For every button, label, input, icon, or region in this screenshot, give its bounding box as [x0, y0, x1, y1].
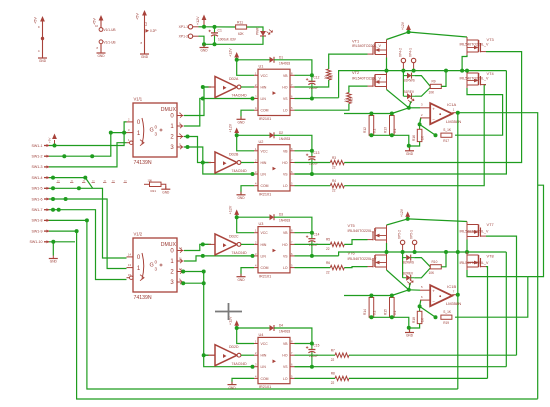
- svg-text:DMUX: DMUX: [161, 107, 177, 113]
- svg-text:C1: C1: [218, 29, 222, 33]
- wire IC1A output to far right riser: [458, 113, 538, 399]
- power symbol +5V pillar P2 (V1/1 supply pins): [100, 17, 102, 22]
- node XP1 +12V junction: [202, 25, 206, 29]
- wire VT6 drain to output row 2: [386, 251, 388, 253]
- svg-text:SW1-9: SW1-9: [32, 229, 43, 233]
- origin crosshair mark: [215, 303, 242, 320]
- LED PWR: [260, 31, 266, 36]
- ground GND of U4: [228, 384, 237, 386]
- svg-text:GND: GND: [406, 334, 414, 338]
- resistor R13 0.1: [390, 116, 395, 136]
- svg-text:COM: COM: [261, 109, 269, 113]
- svg-text:XP5-2: XP5-2: [398, 230, 402, 239]
- power symbol +12V of U2: [236, 130, 238, 135]
- node XP5-2 junction: [401, 250, 405, 254]
- node C1 top junction: [213, 25, 217, 29]
- svg-text:VT4: VT4: [487, 71, 495, 76]
- svg-text:R6: R6: [326, 261, 330, 265]
- svg-text:XP1-1: XP1-1: [179, 25, 189, 29]
- wire HO of U4 to R7: [295, 354, 336, 356]
- svg-text:VT5: VT5: [348, 223, 355, 228]
- wire op-amp output: [452, 112, 457, 114]
- capacitor C15 220uF: [311, 344, 313, 350]
- svg-text:1N4933: 1N4933: [279, 330, 290, 334]
- svg-text:COM: COM: [261, 184, 269, 188]
- svg-text:HIN: HIN: [261, 86, 267, 90]
- wire op-amp2 output: [452, 294, 457, 296]
- svg-text:HO: HO: [282, 86, 287, 90]
- svg-text:10: 10: [324, 75, 328, 79]
- svg-text:DD2B: DD2B: [229, 153, 239, 157]
- wire diode D2 to VB: [274, 135, 312, 151]
- svg-text:COM: COM: [261, 266, 269, 270]
- svg-text:VT3: VT3: [487, 37, 494, 42]
- svg-text:S_1K: S_1K: [443, 310, 452, 314]
- svg-text:VB: VB: [283, 342, 288, 346]
- svg-text:R7: R7: [331, 349, 335, 353]
- svg-text:0.1: 0.1: [372, 310, 376, 315]
- node +12V junction of U4: [235, 326, 239, 330]
- svg-text:1N4933: 1N4933: [279, 61, 290, 65]
- resistor R7 22: [335, 353, 349, 357]
- svg-text:LO: LO: [283, 184, 288, 188]
- svg-text:+12V: +12V: [196, 16, 200, 25]
- connector XP5-2: [400, 240, 404, 244]
- wire inverter output to HIN: [241, 243, 254, 245]
- node sense row A2 junctions: [369, 294, 373, 298]
- svg-text:XP4-2: XP4-2: [399, 48, 403, 57]
- node DMUX1 out3: [186, 145, 190, 149]
- power symbol +12V of U4: [236, 322, 238, 327]
- wire COM to ground: [241, 186, 254, 195]
- wire SW1-1 to DMUX1 input 0: [49, 122, 127, 146]
- wire +12V to VCC pin: [237, 217, 254, 233]
- svg-text:+5V: +5V: [93, 18, 97, 25]
- svg-text:VS: VS: [283, 254, 288, 258]
- svg-text:R17: R17: [443, 139, 449, 143]
- node on DMUX1 input 1 wire: [109, 131, 113, 135]
- svg-text:DMUX: DMUX: [161, 242, 177, 248]
- svg-text:GND: GND: [97, 54, 105, 58]
- wire VT7 source to output row 2: [466, 240, 468, 253]
- LED B1REV: [407, 93, 412, 99]
- svg-text:74AC04D: 74AC04D: [232, 169, 248, 173]
- wire bridge1 output row: [339, 71, 507, 98]
- svg-text:LIN: LIN: [261, 173, 267, 177]
- ground GND of P1: [38, 57, 47, 59]
- wire VT2 drain to output row: [386, 70, 388, 73]
- svg-text:22: 22: [332, 165, 336, 169]
- svg-text:D1: D1: [279, 55, 283, 59]
- svg-text:0.1: 0.1: [393, 310, 397, 315]
- svg-text:IC1B: IC1B: [447, 284, 456, 289]
- svg-text:−: −: [432, 117, 435, 122]
- wire DMUX2 out2 to down riser: [184, 271, 204, 273]
- svg-text:+12V: +12V: [229, 205, 233, 214]
- wire SW1-4 stub: [49, 177, 85, 179]
- svg-text:B1RWS: B1RWS: [404, 79, 415, 83]
- ground GND of sense A: [405, 150, 414, 152]
- svg-text:+: +: [432, 107, 435, 112]
- node R10 on output row 2: [444, 250, 448, 254]
- resistor R14 0.1: [369, 298, 374, 318]
- resistor R9 10K: [430, 84, 441, 88]
- svg-text:R3: R3: [332, 156, 336, 160]
- svg-text:G: G: [150, 263, 154, 269]
- svg-text:G: G: [150, 128, 154, 134]
- node SW1-6 riser: [64, 197, 68, 201]
- power symbol +5V pillar P1: [42, 18, 44, 23]
- svg-text:D2: D2: [279, 131, 283, 135]
- node op-amp2 plus node: [407, 288, 411, 292]
- wire B2REV to R10: [414, 268, 430, 278]
- svg-text:SW1-6: SW1-6: [32, 197, 43, 201]
- svg-text:R5: R5: [326, 238, 330, 242]
- capacitor C1 1000uF 63V: [214, 27, 216, 33]
- wire R18 to ground: [410, 324, 420, 328]
- transistor VT5 IRL540 TO220: [368, 239, 374, 241]
- node +12V junction of U2: [235, 133, 239, 137]
- wire VS to cap bottom: [295, 255, 312, 257]
- node DMUX1 out2: [186, 135, 190, 139]
- node VB junction of U4: [295, 343, 312, 345]
- wire LO of U1 to R2: [295, 104, 349, 111]
- svg-text:IRL540TO220L_V: IRL540TO220L_V: [348, 257, 378, 261]
- connector XP4-2: [401, 58, 405, 62]
- svg-text:PWR: PWR: [256, 27, 260, 35]
- node IC1B output: [456, 293, 460, 297]
- svg-text:VCC: VCC: [261, 231, 269, 235]
- svg-text:U4: U4: [259, 333, 264, 337]
- svg-text:COM: COM: [261, 377, 269, 381]
- svg-text:VT1: VT1: [352, 39, 359, 44]
- svg-text:IRL540TO220L_V: IRL540TO220L_V: [352, 77, 382, 81]
- wire plus node to op-amp: [409, 107, 420, 109]
- wire COM to ground: [241, 110, 254, 119]
- svg-text:VT8: VT8: [487, 254, 494, 259]
- wire sense row A2: [344, 295, 392, 297]
- wire inverter output to HIN: [241, 86, 254, 88]
- wire XP5 diodes branch: [402, 252, 404, 278]
- svg-text:62K: 62K: [238, 32, 245, 36]
- wire output row right riser to VS U2: [505, 70, 507, 72]
- wire VS to cap bottom: [295, 98, 312, 100]
- svg-text:+12V: +12V: [401, 21, 405, 30]
- svg-text:VT6: VT6: [348, 251, 355, 256]
- wire SW1-2 to DMUX1 input 1: [49, 133, 127, 157]
- wire +12V rail to diode D1: [237, 59, 270, 61]
- svg-text:IRL540TO220L_V: IRL540TO220L_V: [460, 261, 490, 265]
- svg-text:C12: C12: [314, 75, 320, 79]
- resistor R3 22: [330, 160, 344, 164]
- svg-text:HO: HO: [282, 161, 287, 165]
- wire minus node 2 to R19: [420, 306, 436, 317]
- svg-text:B2REV: B2REV: [403, 272, 414, 276]
- wire +12V rail to R11: [204, 26, 236, 28]
- svg-text:S_1K: S_1K: [443, 128, 452, 132]
- diode D3 1N4933: [270, 214, 275, 220]
- wire SW1-3 to DMUX1 enable G: [49, 143, 127, 167]
- connector XP1-1: [188, 25, 192, 29]
- wire VS of U4 row: [295, 366, 507, 368]
- logic inverter DD2D 74AC04D: [215, 345, 237, 366]
- wire SW1-6 to DMUX2 input 1: [49, 199, 127, 269]
- svg-text:+12V: +12V: [400, 208, 404, 217]
- power symbol +5V pillar P3 with capacitor C2: [144, 12, 146, 17]
- wire VT7 gate riser to R7 row: [486, 236, 517, 355]
- svg-text:LIN: LIN: [261, 97, 267, 101]
- wire stub x543: [528, 185, 544, 276]
- wire DMUX2 out1 to U3 LIN: [184, 256, 254, 261]
- node +12V junction of U1: [235, 58, 239, 62]
- svg-text:SW1-1: SW1-1: [32, 144, 43, 148]
- ground GND of U2: [237, 194, 246, 196]
- wire XP4 diodes branch: [402, 71, 404, 97]
- wire VT5 source to output row 2: [386, 243, 388, 252]
- diode D4 1N4933: [270, 325, 275, 331]
- wire +12V2 to VT5 drain: [387, 219, 408, 225]
- wire VT1 source to output row: [386, 58, 388, 71]
- wire VT8 gate riser to R8 row: [486, 267, 488, 379]
- svg-text:V1/1-UB: V1/1-UB: [104, 40, 116, 44]
- wire LO of U3 to R6: [295, 267, 331, 269]
- svg-text:C2: C2: [144, 22, 148, 26]
- svg-text:R14: R14: [363, 309, 367, 315]
- power symbol +12V at XP1: [203, 17, 205, 22]
- svg-text:IR2101: IR2101: [259, 385, 271, 389]
- node VT3 source on output row: [460, 69, 464, 73]
- ground GND of SW1-10: [49, 258, 58, 260]
- wire DMUX1 out3 to U2 LIN: [184, 147, 254, 174]
- node XP4-1 junction: [412, 69, 416, 73]
- wire SW1-10 to ground: [49, 241, 75, 243]
- wire sense row A: [344, 113, 392, 115]
- svg-text:DD2A: DD2A: [229, 77, 239, 81]
- node VB junction of U3: [295, 232, 312, 234]
- svg-text:10K: 10K: [429, 271, 436, 275]
- ground GND of XP1: [200, 47, 209, 49]
- wire +12V2 to VT7 drain: [408, 219, 467, 222]
- svg-text:VB: VB: [283, 231, 288, 235]
- wire VS of U3 to output row 2: [312, 255, 339, 257]
- node bridge2 output at VT5/VT6: [385, 250, 389, 254]
- wire SW1-10 down to GND: [52, 242, 54, 256]
- svg-text:1000uF, 63V: 1000uF, 63V: [218, 37, 237, 41]
- node minus node 2: [418, 304, 422, 308]
- wire R11 to LED PWR: [247, 27, 263, 31]
- svg-text:SW1-7: SW1-7: [32, 208, 43, 212]
- svg-text:GND: GND: [228, 386, 236, 390]
- svg-text:DD2C: DD2C: [229, 234, 239, 238]
- svg-text:IRL540TO220L_V: IRL540TO220L_V: [348, 229, 378, 233]
- op-amp IC1B LM358N: [430, 285, 452, 306]
- svg-text:+12V: +12V: [229, 48, 233, 57]
- svg-text:V1/1-UB: V1/1-UB: [104, 28, 116, 32]
- wire DMUX1 out2 to U2 inverter: [184, 137, 211, 163]
- svg-text:LM358N: LM358N: [446, 301, 461, 306]
- svg-text:−: −: [432, 299, 435, 304]
- svg-text:22: 22: [326, 247, 330, 251]
- wire diode D1 to VB: [274, 60, 312, 76]
- svg-text:10: 10: [344, 98, 348, 102]
- svg-text:VB: VB: [283, 74, 288, 78]
- power symbol +12V H-bridge 1: [408, 27, 410, 32]
- resistor R18 1K: [419, 306, 421, 311]
- wire sense row B: [371, 135, 409, 150]
- node +12V H-bridge 2: [406, 217, 410, 221]
- svg-text:U3: U3: [259, 222, 264, 226]
- wire VT6 source to sense node 2: [387, 270, 409, 290]
- resistor R5 22: [330, 242, 344, 246]
- resistor R15 0.1: [390, 298, 395, 318]
- svg-text:1N4933: 1N4933: [279, 219, 290, 223]
- node U4 inverter tap: [202, 353, 206, 357]
- wire SW1-7 to DMUX2 enable G: [49, 210, 127, 280]
- svg-text:IRL540TO220L_V: IRL540TO220L_V: [352, 44, 382, 48]
- svg-text:LO: LO: [283, 266, 288, 270]
- wire +12V rail to diode D4: [237, 327, 270, 329]
- capacitor C12 220uF: [311, 75, 313, 81]
- wire inverter input stub: [203, 162, 209, 164]
- wire diode D3 to VB: [274, 217, 312, 233]
- wire diode D4 to VB: [274, 328, 312, 344]
- wire LED node to opamp plus input: [409, 102, 411, 108]
- svg-text:V1/1: V1/1: [134, 97, 143, 102]
- svg-text:U1: U1: [259, 65, 264, 69]
- wire LO of U2 to R4: [295, 185, 331, 187]
- wire XP1-1 to +12V node: [199, 26, 205, 28]
- node SW1-8 riser: [85, 218, 89, 222]
- node VT4 drain junction: [465, 69, 469, 73]
- wire VS to cap bottom: [295, 173, 312, 175]
- svg-text:R18: R18: [412, 317, 416, 323]
- connector XP1-2: [188, 34, 192, 38]
- transistor VT6 IRL540 TO220: [368, 266, 374, 268]
- wire DMUX1 out1 to U1 LIN: [184, 99, 254, 127]
- wire row A left stub: [343, 113, 345, 115]
- svg-text:R1: R1: [330, 75, 334, 79]
- diode B2RWS: [406, 255, 411, 261]
- svg-text:GND: GND: [406, 152, 414, 156]
- node DMUX2 out2: [181, 270, 185, 274]
- resistor R10 10K: [430, 265, 441, 269]
- node +12V H-bridge 1: [407, 30, 411, 34]
- svg-text:SW1-2: SW1-2: [32, 155, 43, 159]
- node bridge1 output at VT1/VT2: [385, 69, 389, 73]
- svg-text:1N4933: 1N4933: [279, 137, 290, 141]
- wire op-amp minus input: [420, 118, 421, 125]
- transistor VT8 IRL540 TO220 (mirrored): [481, 266, 487, 268]
- connector XP4-1: [411, 58, 415, 62]
- svg-text:SW1-10: SW1-10: [30, 240, 43, 244]
- resistor R16 1K: [419, 124, 421, 129]
- node VB junction of U1: [295, 74, 312, 76]
- wire SW1-5 to DMUX2 input 0: [49, 188, 127, 258]
- capacitor C13 220uF: [311, 151, 313, 157]
- transistor VT4 IRL540 TO220 (mirrored): [481, 84, 487, 86]
- wire VT8 source row: [467, 270, 528, 277]
- svg-text:IRL540TO220L_V: IRL540TO220L_V: [460, 230, 490, 234]
- logic inverter DD2A 74AC04D: [215, 77, 237, 98]
- power symbol +5V at SW1-1: [54, 136, 56, 139]
- svg-text:VS: VS: [283, 365, 288, 369]
- ground GND of sense B: [405, 332, 414, 334]
- svg-text:GND: GND: [162, 190, 170, 194]
- svg-text:22: 22: [331, 381, 335, 385]
- svg-text:IR2101: IR2101: [259, 274, 271, 278]
- svg-text:SW1-8: SW1-8: [32, 219, 43, 223]
- wire COM to ground: [232, 378, 254, 384]
- svg-text:XP5-1: XP5-1: [410, 230, 414, 239]
- svg-text:0.1: 0.1: [393, 128, 397, 133]
- svg-text:U2: U2: [259, 140, 264, 144]
- wire inverter input stub: [203, 354, 209, 356]
- svg-text:R16: R16: [412, 135, 416, 141]
- svg-text:74AC04D: 74AC04D: [232, 362, 248, 366]
- wire R8 to VT8 riser: [349, 377, 488, 379]
- wire +12V to VCC pin: [237, 328, 254, 344]
- svg-text:IRL540TO220L_V: IRL540TO220L_V: [460, 77, 490, 81]
- svg-text:C13: C13: [314, 151, 320, 155]
- svg-text:C15: C15: [314, 344, 320, 348]
- wire R6 to VT6 gate: [344, 267, 367, 268]
- wire R9 to output row: [441, 71, 446, 87]
- wire VT2 source to sense node: [387, 90, 409, 108]
- node U1 inverter input: [201, 85, 205, 89]
- svg-text:GND: GND: [50, 260, 58, 264]
- wire VS of U2 to right riser: [295, 71, 507, 174]
- wire LO of U4 to R8: [295, 377, 336, 379]
- wire LED to bottom rail: [204, 36, 263, 44]
- demultiplexer V1/1 74139N (DMUX): [133, 103, 177, 157]
- wire R7 to VT7 riser: [349, 354, 517, 356]
- IC U1 IR2101 gate driver: [258, 69, 290, 115]
- svg-text:74AC04D: 74AC04D: [232, 94, 248, 98]
- svg-text:74AC04D: 74AC04D: [232, 251, 248, 255]
- svg-text:GND: GND: [141, 55, 149, 59]
- svg-text:GND: GND: [237, 278, 245, 282]
- node DMUX2 out3: [181, 281, 185, 285]
- node minus node: [418, 122, 422, 126]
- svg-text:10K: 10K: [148, 179, 153, 183]
- node SW1-1 +5V junction: [53, 144, 57, 148]
- wire R2 to VT2 gate: [349, 86, 368, 92]
- svg-text:HO: HO: [282, 243, 287, 247]
- svg-text:VS: VS: [283, 173, 288, 177]
- connector XP5-1: [412, 240, 416, 244]
- svg-text:10K: 10K: [429, 91, 436, 95]
- svg-text:LM358N: LM358N: [446, 119, 461, 124]
- node VT7 source junction: [465, 250, 469, 254]
- resistor R1: [327, 69, 331, 80]
- svg-text:+12V: +12V: [229, 123, 233, 132]
- diode B1RWS: [407, 73, 412, 79]
- svg-text:R19: R19: [443, 321, 449, 325]
- wire VS of U1 to output row riser: [312, 97, 339, 99]
- wire B1REV to R9: [415, 88, 430, 97]
- wire DMUX2 out0 to U3 inverter: [184, 244, 211, 250]
- diode D1 1N4933: [270, 57, 275, 63]
- svg-text:SW1-5: SW1-5: [32, 187, 43, 191]
- svg-text:VCC: VCC: [261, 342, 269, 346]
- ground GND of U3: [237, 276, 246, 278]
- svg-text:B2RWS: B2RWS: [403, 261, 414, 265]
- wire VT8 source riser to R19: [455, 277, 528, 318]
- IC U2 IR2101 gate driver: [258, 145, 290, 191]
- svg-text:HO: HO: [282, 354, 287, 358]
- svg-text:HIN: HIN: [261, 354, 267, 358]
- node R19 left junction: [434, 315, 438, 319]
